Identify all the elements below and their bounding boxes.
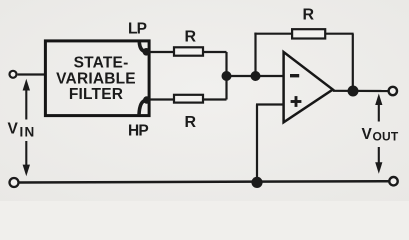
resistor R3 (feedback): [292, 29, 325, 38]
junction dot: ground rail at riser: [251, 177, 262, 188]
resistor R1 (LP path): [174, 47, 203, 55]
junction dot: output node: [348, 86, 359, 97]
label R1 value R: [185, 29, 197, 46]
output terminal Vout (open circle): [389, 87, 397, 95]
Vin up arrow: [23, 79, 30, 120]
filter box U1 (STATE-VARIABLE FILTER): [45, 41, 149, 116]
svg-text:HP: HP: [128, 123, 148, 140]
wire: feedback riser from inverting node: [254, 33, 256, 76]
label R3 value R: [303, 7, 315, 24]
svg-text:STATE-: STATE-: [74, 55, 129, 72]
node dot at LP tap: [143, 48, 151, 56]
label HP: [128, 123, 148, 140]
HP output arc from box bottom edge: [139, 100, 147, 115]
wire: feedback top horizontal: [254, 33, 353, 35]
svg-text:IN: IN: [20, 125, 36, 140]
LP output arc from box top edge: [139, 42, 146, 52]
Vout up arrow: [375, 94, 382, 122]
wire: vertical joining LP and HP branches: [225, 52, 227, 100]
svg-text:OUT: OUT: [373, 130, 399, 144]
svg-text:VARIABLE: VARIABLE: [56, 70, 136, 87]
svg-text:R: R: [185, 114, 197, 131]
ground terminal right (open circle): [389, 177, 397, 185]
ground terminal left (open circle): [10, 178, 19, 187]
label VOUT: [362, 126, 399, 144]
junction dot: feedback tap on inverting input: [251, 71, 261, 81]
svg-text:R: R: [303, 7, 315, 24]
junction dot: summing node: [222, 71, 232, 81]
label LP: [128, 21, 147, 38]
svg-text:V: V: [362, 126, 373, 143]
svg-text:R: R: [185, 29, 197, 46]
op-amp A1 triangle: [284, 52, 333, 122]
ground rail: [19, 181, 390, 182]
node dot at HP tap: [143, 96, 151, 104]
Vin down arrow: [23, 141, 30, 176]
wire: input terminal to filter box: [18, 73, 46, 75]
wire: ground riser down to rail: [256, 105, 258, 183]
label VIN: [8, 121, 36, 140]
svg-text:LP: LP: [128, 21, 147, 38]
Vout down arrow: [375, 147, 382, 174]
label R2 value R: [185, 114, 197, 131]
wire: LP tap to summing node (horizontal): [146, 51, 227, 53]
wire: summing node to op-amp inverting input: [227, 75, 285, 77]
svg-text:V: V: [8, 121, 19, 138]
resistor R2 (HP path): [174, 95, 203, 103]
op-amp inverting input symbol -: [290, 74, 299, 77]
wire: non-inverting input to ground riser: [256, 103, 284, 105]
wire: feedback down to output node: [352, 34, 354, 91]
svg-text:FILTER: FILTER: [69, 86, 123, 103]
input terminal Vin (open circle): [10, 71, 17, 78]
wire: op-amp output to Vout terminal: [333, 90, 389, 92]
wire: HP tap to summing node (horizontal): [146, 98, 227, 100]
op-amp non-inverting input symbol +: [291, 96, 302, 107]
